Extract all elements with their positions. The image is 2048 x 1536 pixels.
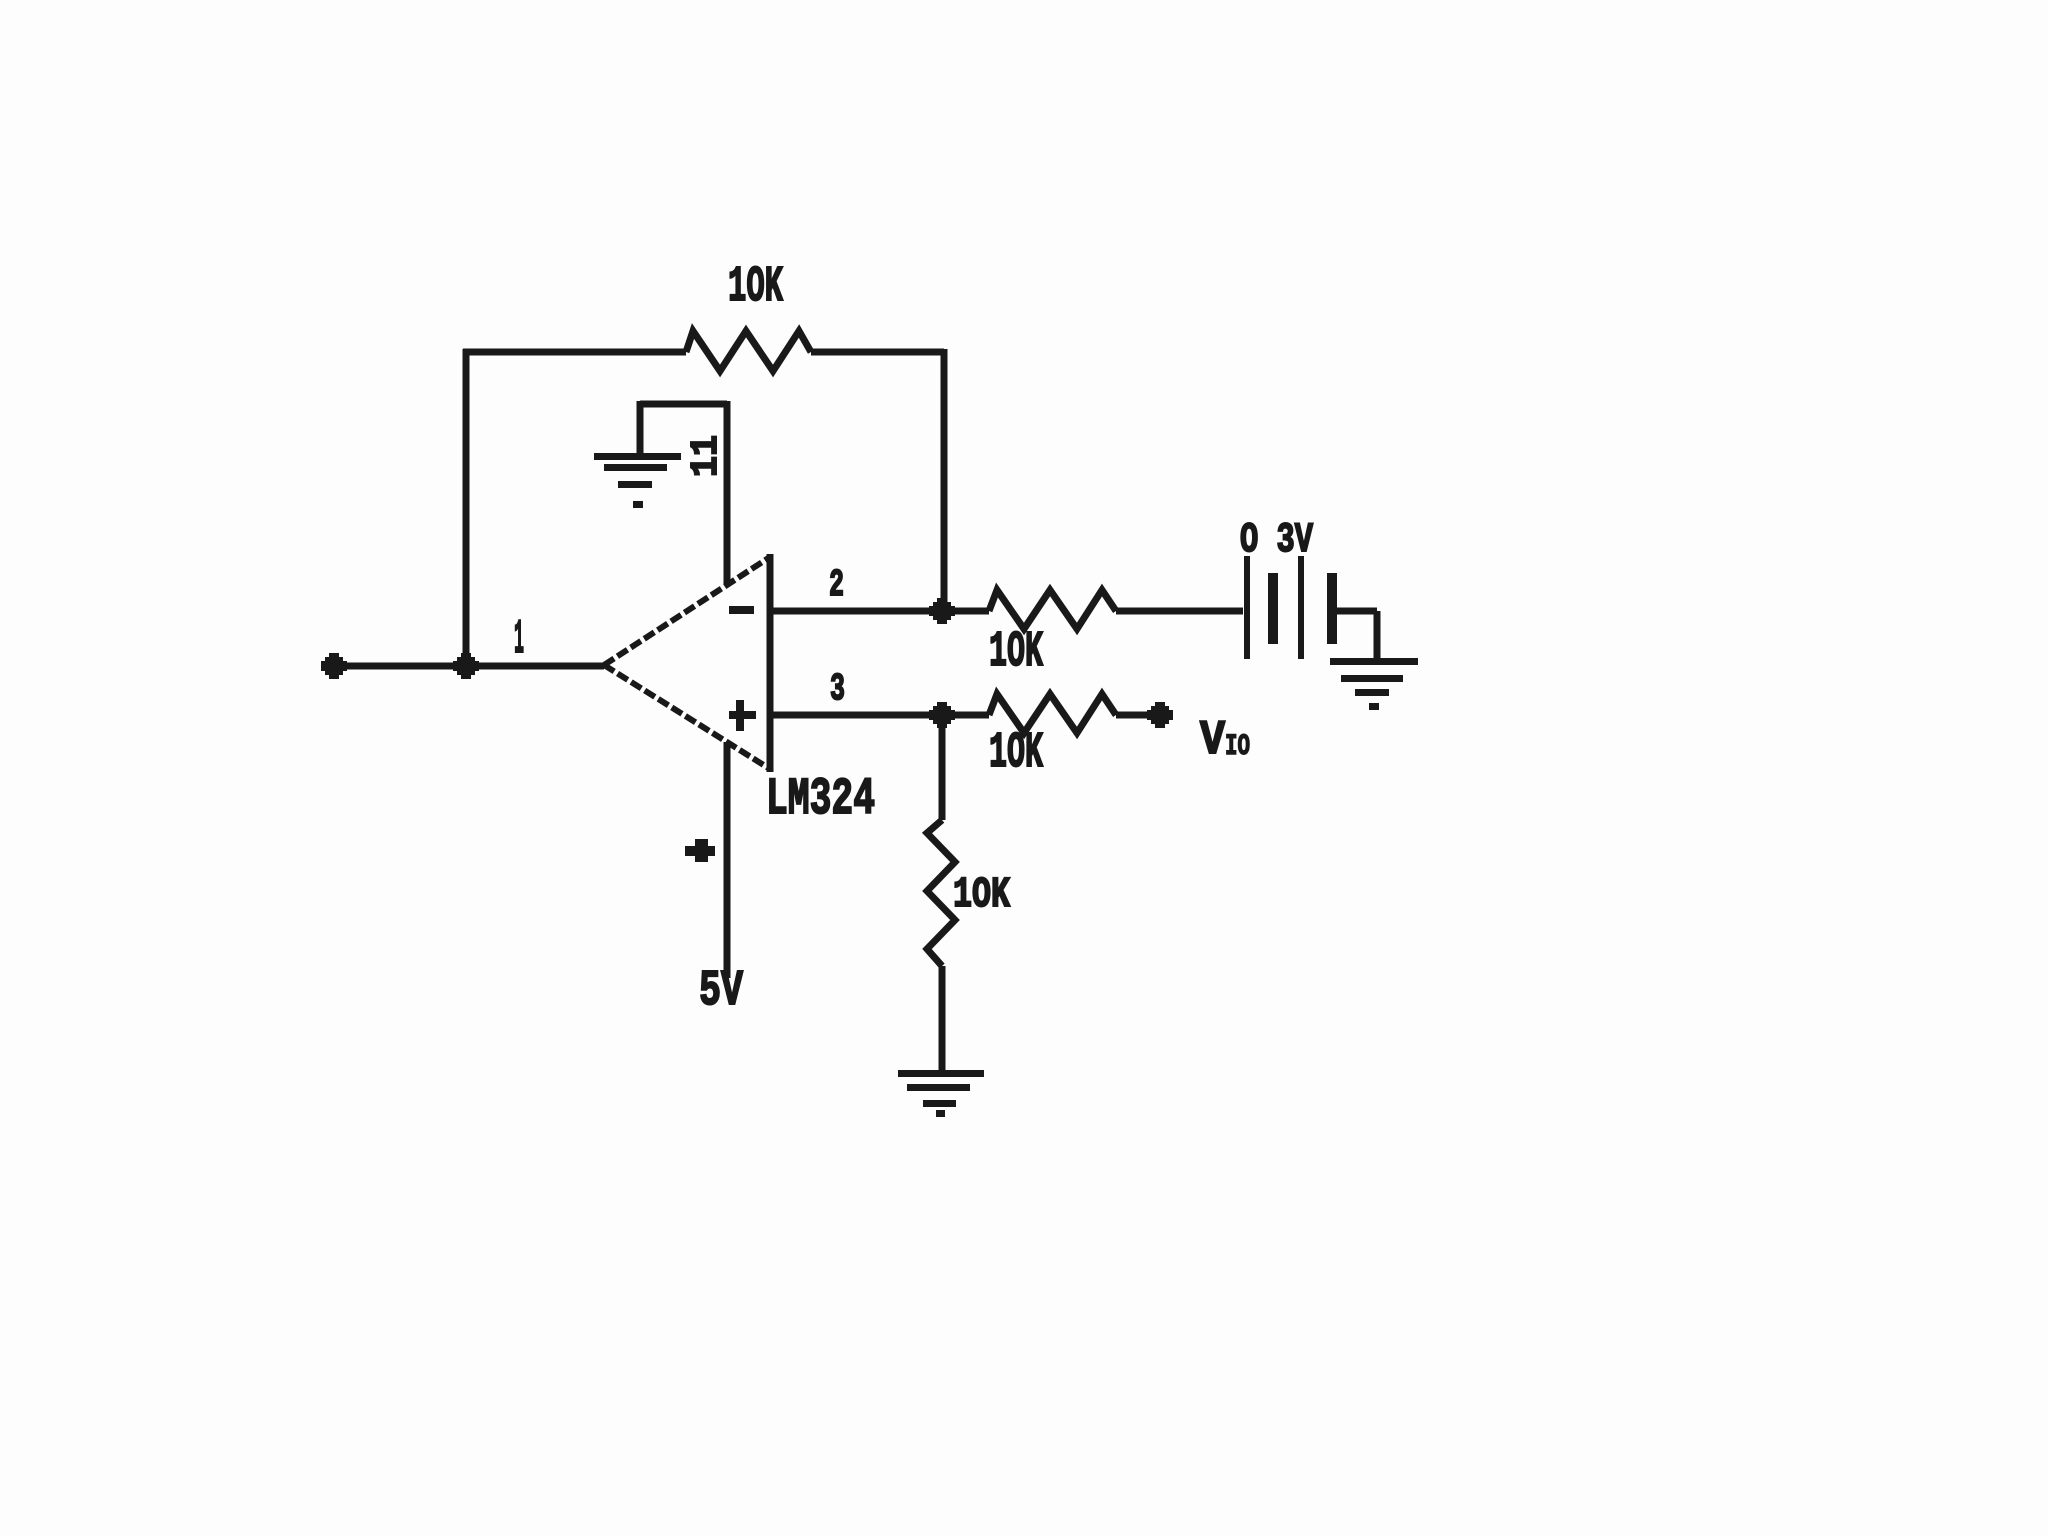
wire pin3 junction down to R4 <box>939 715 946 820</box>
svg-text:1: 1 <box>514 613 524 667</box>
svg-text:1OK: 1OK <box>953 870 1010 919</box>
power plus sign <box>685 839 715 862</box>
resistor R4 10K vertical zigzag <box>927 820 955 966</box>
wire R2 to battery <box>1116 608 1243 615</box>
svg-text:5V: 5V <box>699 963 743 1020</box>
resistor R2 10K pin2 zigzag <box>989 590 1116 629</box>
battery BT1 plates <box>1244 556 1337 659</box>
op-amp U1 triangle <box>767 554 774 772</box>
wire feedback top right segment <box>811 349 944 356</box>
wire feedback top left segment <box>463 349 686 356</box>
node terminal dot Vio <box>1147 702 1173 728</box>
svg-text:1OK: 1OK <box>989 624 1043 681</box>
node input terminal dot <box>321 653 347 679</box>
node junction dot pin2 <box>929 598 955 624</box>
svg-text:2: 2 <box>829 564 844 607</box>
resistor R3 10K pin3 zigzag <box>989 694 1116 733</box>
wire op-amp power vertical <box>724 742 731 978</box>
wire battery to ground <box>1337 611 1377 661</box>
wire inner loop left vertical to ground <box>637 401 644 454</box>
resistor R1 10K feedback zigzag <box>686 331 811 371</box>
wire R3 to terminal <box>1116 712 1153 719</box>
op-amp plus input sign <box>729 700 756 731</box>
wire pin2 to junction <box>770 608 989 615</box>
svg-text:IO: IO <box>1225 730 1250 764</box>
svg-text:11: 11 <box>685 435 728 477</box>
svg-text:O 3V: O 3V <box>1240 516 1314 564</box>
ground G3 bottom <box>898 1070 984 1117</box>
wire R4 to ground <box>939 966 946 1073</box>
ground G2 battery <box>1330 658 1418 710</box>
svg-text:LM324: LM324 <box>766 770 875 829</box>
wire input horizontal <box>334 663 604 670</box>
wire feedback right vertical <box>941 349 948 611</box>
op-amp minus input sign <box>729 606 754 614</box>
svg-text:1OK: 1OK <box>989 725 1043 782</box>
svg-text:3: 3 <box>830 668 845 711</box>
svg-text:V: V <box>1200 714 1225 768</box>
wire pin3 to junction <box>770 712 989 719</box>
svg-text:1OK: 1OK <box>728 259 783 316</box>
ground G1 pin11 <box>594 453 681 508</box>
wire inner loop top <box>640 401 727 408</box>
wire inner loop right vertical to op-amp top edge <box>724 401 731 584</box>
node junction dot output/feedback <box>453 653 479 679</box>
wire feedback left vertical <box>463 349 470 666</box>
node junction dot pin3 <box>929 702 955 728</box>
